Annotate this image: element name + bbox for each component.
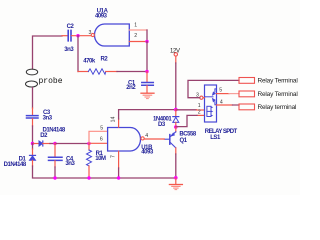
- svg-text:RELAY SPDT: RELAY SPDT: [205, 129, 238, 135]
- wire C4 node to R1 node: [55, 143, 89, 145]
- svg-text:Relay Terminal: Relay Terminal: [258, 91, 299, 98]
- relay contact pin5 arrow: [215, 89, 217, 92]
- probe electrode bottom: [26, 81, 38, 87]
- svg-text:5: 5: [219, 87, 222, 93]
- svg-text:D3: D3: [158, 122, 166, 128]
- nand gate U1A 4093 (mirrored): [95, 24, 130, 46]
- relay pin5 wire: [217, 93, 230, 95]
- wire C2 right to U1A output: [72, 35, 92, 37]
- capacitor C4: [54, 144, 56, 157]
- relay coil: [207, 106, 211, 116]
- capacitor C2: [68, 30, 71, 40]
- relay pin3 wire and open pin: [200, 96, 203, 99]
- svg-text:R2: R2: [101, 56, 109, 62]
- relay terminal 2: [239, 91, 255, 97]
- wire R2 to C1 node: [117, 71, 147, 73]
- nand gate U1B 4093: [108, 128, 141, 152]
- wire U1B pin6: [89, 142, 107, 144]
- node junction pin7 at rail: [117, 176, 120, 179]
- ground symbol bottom: [175, 178, 177, 184]
- svg-text:D2: D2: [40, 133, 48, 139]
- wire C2 node down to R2: [77, 36, 79, 72]
- relay pin4 wire: [217, 104, 233, 106]
- svg-text:7: 7: [111, 155, 117, 158]
- wire D2 to C4 node: [50, 143, 55, 145]
- U1A pin1 wire: [129, 29, 147, 31]
- relay terminal 1: [239, 78, 255, 84]
- svg-text:10M: 10M: [95, 156, 106, 162]
- wire D1 to ground rail: [33, 166, 177, 178]
- probe electrode top: [26, 69, 37, 75]
- svg-text:5: 5: [100, 126, 103, 132]
- node junction D3 anode / Q1 emitter / pin2 wire: [174, 125, 178, 129]
- svg-text:Q1: Q1: [180, 138, 188, 144]
- node junction R1 bottom: [87, 176, 90, 179]
- wire probe top to C2: [33, 36, 63, 69]
- svg-text:1: 1: [134, 22, 137, 28]
- svg-text:2: 2: [134, 33, 137, 39]
- svg-text:D1N4148: D1N4148: [4, 162, 27, 168]
- svg-text:4: 4: [220, 99, 223, 105]
- U1B pin 7 wire to ground rail: [118, 151, 120, 168]
- capacitor C1: [146, 72, 148, 83]
- relay LS1 box: [205, 85, 217, 122]
- node junction R1 top: [87, 142, 90, 145]
- transistor Q1 BC558: [175, 127, 177, 132]
- svg-text:3n3: 3n3: [64, 47, 74, 53]
- diode D2 D1N4148: [33, 143, 40, 145]
- svg-text:2: 2: [198, 109, 201, 115]
- node junction at C4 top: [53, 142, 56, 145]
- ground below C1: [141, 92, 154, 94]
- wire relay pin1: [176, 109, 197, 111]
- node junction R2/C1: [145, 70, 148, 73]
- svg-text:BC558: BC558: [179, 132, 197, 138]
- relay pole line pin3: [205, 96, 214, 98]
- svg-text:3: 3: [196, 93, 199, 99]
- wire C2 left stub: [62, 35, 67, 37]
- wire probe to C3: [32, 88, 34, 109]
- svg-text:C2: C2: [67, 24, 75, 30]
- U1A pin2 wire: [129, 41, 147, 43]
- wire C3 top stub: [32, 108, 34, 115]
- svg-text:probe: probe: [39, 77, 63, 86]
- wire 12V rail down: [175, 63, 177, 110]
- node junction pins 1-2: [145, 40, 148, 43]
- svg-text:Relay terminal: Relay terminal: [258, 104, 297, 111]
- diode D1 D1N4148: [32, 144, 34, 150]
- wire Q1 collector to ground: [175, 154, 177, 178]
- capacitor C3: [27, 116, 39, 118]
- U1A pin1-pin2 tie: [146, 30, 148, 42]
- relay terminal 3: [239, 104, 255, 110]
- svg-text:470k: 470k: [83, 59, 96, 65]
- svg-text:4: 4: [145, 133, 148, 139]
- node junction C2/pin3: [76, 34, 79, 37]
- svg-text:LS1: LS1: [210, 135, 221, 141]
- resistor R2 470k: [78, 71, 88, 73]
- svg-text:3n3: 3n3: [43, 115, 53, 121]
- svg-text:Relay Terminal: Relay Terminal: [258, 78, 299, 85]
- wire C3 to D2 node: [32, 119, 34, 126]
- wire U1B pin5: [89, 131, 107, 143]
- svg-text:14: 14: [111, 117, 117, 123]
- node junction rail end: [174, 176, 178, 180]
- svg-text:3n3: 3n3: [65, 161, 75, 167]
- node junction at D2 left: [31, 142, 34, 145]
- svg-text:4093: 4093: [141, 150, 154, 156]
- wire U1B pin4 to Q1 base: [144, 138, 164, 140]
- wire pins1-2 node down to R2/C1 node: [146, 42, 148, 72]
- node junction 12V/pin14/pin1/D3: [174, 108, 178, 112]
- svg-text:1: 1: [198, 103, 201, 109]
- U1B pin 14 wire to 12V: [118, 119, 120, 127]
- diode D3 1N4001: [175, 110, 177, 116]
- node junction C4 bottom: [53, 176, 56, 179]
- svg-text:4093: 4093: [95, 14, 108, 20]
- svg-text:2n2: 2n2: [126, 85, 136, 91]
- wire relay pin2 route: [197, 114, 205, 116]
- resistor R1 10M: [88, 144, 90, 151]
- relay contact pin4 arrow: [215, 102, 217, 105]
- svg-text:6: 6: [100, 137, 103, 143]
